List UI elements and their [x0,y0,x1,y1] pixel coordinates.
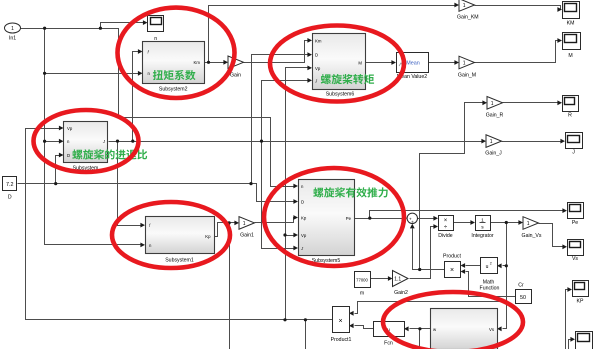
svg-text:Subsystem2: Subsystem2 [159,86,188,92]
gain Gain_KM [459,0,475,11]
scope R [563,96,579,112]
annotation red ellipse around Subsystem6 [270,26,404,102]
wire Sum to Divide [418,218,436,220]
svg-text:Kp: Kp [205,234,211,239]
subsystem Subsystem (advance ratio) [64,122,108,163]
wire R branch to Gain_R [420,103,485,270]
wire Gain2 to Divide divisor [410,227,436,279]
svg-text:KM: KM [567,21,575,27]
wire J branch to Subsystem1 f [118,142,143,226]
block Divide [439,216,454,231]
svg-text:D: D [8,195,12,201]
scope Vs [568,240,584,256]
wire Gain_R to Scope R [503,102,560,104]
constant m = 77000 [355,272,371,288]
annotation red ellipse around wake subsystem [383,292,523,349]
junction dots [43,27,46,30]
svg-text:Pe: Pe [572,220,578,226]
constant D = 7.2 [3,177,17,191]
annotation red ellipse around Subsystem1 [112,202,230,268]
svg-text:Subsystem6: Subsystem6 [326,92,355,98]
svg-text:KP: KP [577,299,584,305]
scope J [566,133,583,149]
gain Gain_R [487,97,503,110]
wire J branch to Subsystem2 f [133,52,140,142]
svg-text:M: M [568,53,572,59]
svg-text:Vp: Vp [301,233,307,238]
svg-text:M: M [358,60,362,65]
svg-text:Kp: Kp [301,216,307,221]
svg-text:D: D [67,153,70,158]
svg-text:Mean: Mean [406,61,420,67]
wire J line to Gain_J [109,141,484,143]
wire D line to Subsystem5 D [18,184,296,202]
gain Gain_Vs [523,217,539,230]
scope KM [563,2,580,19]
scope KP [573,281,589,297]
wire Gain_J to Scope J [502,141,563,143]
wire Mean Value2 to Gain_M [429,62,457,64]
svg-text:D: D [301,200,304,205]
svg-text:1: 1 [11,26,14,32]
svg-text:1: 1 [527,221,530,227]
wire Vp riser to Subsystem6 Vp [286,68,310,320]
svg-text:Product1: Product1 [331,337,352,343]
wire Km to Gain [205,62,226,64]
wire Subsystem1 Kp to Gain1 [215,223,237,237]
wire Gain_Vs to Scope Vs [539,224,565,247]
wire Kp branch down [229,223,231,349]
svg-text:Divide: Divide [438,233,453,239]
svg-text:Gain_J: Gain_J [485,151,502,157]
svg-text:Vp: Vp [67,126,73,131]
scope bottom right [576,332,593,349]
svg-text:Function: Function [480,286,500,292]
wire Gain_M to Scope M [475,41,560,63]
wire Product R to Sum minus [413,229,445,270]
wire mass to Gain2 [371,278,390,280]
gain Gain [228,56,244,69]
block Product1 [333,307,350,333]
svg-text:u: u [486,264,489,270]
svg-text:Cr: Cr [518,283,524,289]
svg-text:1: 1 [491,101,494,107]
wire w branch down [419,329,421,349]
svg-text:m: m [360,291,364,297]
wire n to Subsystem2 n [45,73,140,75]
wire n branch to Scope n [101,23,145,29]
svg-text:+: + [411,219,414,224]
svg-text:77000: 77000 [356,278,368,283]
wire J branch to Subsystem5 J [262,142,296,249]
subsystem Subsystem1 [146,217,215,254]
wire Pe to Sum [355,218,405,220]
svg-text:×: × [450,267,454,274]
svg-text:Product: Product [443,254,461,260]
wire Vp to Subsystem5 Vp [286,235,296,237]
svg-text:1.1: 1.1 [394,277,401,283]
subsystem wake (bottom) [431,309,498,349]
svg-text:Gain_KM: Gain_KM [457,15,479,21]
wire Vs branch to Math Function [503,265,507,267]
svg-text:Integrator: Integrator [471,233,493,239]
annotation red ellipse around Subsystem advance ratio [34,110,139,172]
input port In1 [5,23,21,33]
svg-text:1: 1 [243,221,246,227]
wire Gain1 to Subsystem5 Kp [255,218,296,223]
svg-text:1: 1 [463,3,466,9]
wire riser to bottom scope [569,340,573,349]
subsystem Subsystem2 (torque coefficient) [143,42,205,84]
annotation red ellipse around Subsystem2 [118,8,235,98]
annotation red ellipse around Subsystem5 [264,168,404,266]
wire n to Subsystem advance-ratio n [45,141,61,143]
wire n branch down left column [45,29,143,245]
svg-text:Gain1: Gain1 [240,233,254,239]
svg-text:7.2: 7.2 [6,182,14,188]
wire riser to Scope KP [566,290,570,349]
svg-text:Vp: Vp [315,66,321,71]
svg-text:R: R [568,113,572,119]
subsystem Subsystem6 (propeller torque) [313,34,366,90]
wire Gain_KM to Scope KM [475,6,561,10]
svg-text:Subsystem1: Subsystem1 [165,258,194,264]
wire D branch to Subsystem advance-ratio D [56,156,61,184]
svg-text:2: 2 [490,262,492,266]
block Math Function u^2 [481,258,498,274]
wire Cr to Product [466,272,516,297]
block Integrator [476,216,491,231]
svg-text:×: × [444,218,448,224]
sum junction [407,213,417,223]
svg-text:Gain_R: Gain_R [486,113,504,119]
svg-text:In1: In1 [9,36,16,42]
svg-text:Vs: Vs [489,327,494,332]
gain Gain1 [239,217,255,230]
svg-text:1: 1 [463,61,466,67]
scope n [148,16,164,32]
gain Gain2 [393,271,409,287]
wire n main: In1 to Subsystem5 n [21,29,296,187]
wire Vs down to bottom subsystem [503,223,507,329]
wire J branch to Subsystem6 J [262,81,310,142]
svg-text:Pe: Pe [346,216,352,221]
svg-text:Vs: Vs [572,256,578,262]
scope Pe [568,203,584,219]
svg-text:Km: Km [194,60,201,65]
wire D branch to Subsystem6 D [252,55,310,184]
wire Vp feedback from Product1 to Subsystem Vp [26,129,333,320]
svg-text:Gain_Vs: Gain_Vs [522,233,542,239]
svg-text:Km: Km [315,38,322,43]
wire u2 to Product [466,265,481,267]
svg-text:Gain_M: Gain_M [458,73,476,79]
block Fcn [374,322,405,337]
wire Vp stub down [305,320,307,349]
svg-text:Gain2: Gain2 [394,290,408,296]
scope M [563,33,581,50]
wire Km branch to Gain_KM [209,6,457,63]
svg-text:Fcn: Fcn [384,341,393,347]
wire Integrator to Gain_Vs [491,222,521,224]
wire Subsystem6 M to Mean Value2 [366,62,394,64]
wire Pe branch to Scope Pe [370,211,565,219]
wire w to Fcn [410,328,431,330]
svg-text:×: × [338,318,342,325]
svg-text:J: J [572,150,575,156]
block Mean Value2 [397,53,429,73]
svg-text:1: 1 [490,139,493,145]
wire Fcn to Product1 [355,326,374,329]
wire Divide to Integrator [454,222,473,224]
gain Gain_J [486,135,502,148]
svg-text:D: D [315,53,318,58]
wire Gain to Subsystem6 Km [244,41,310,63]
subsystem Subsystem5 (effective thrust) [299,180,355,256]
svg-text:50: 50 [520,295,526,301]
gain Gain_M [459,56,475,69]
svg-text:Gain: Gain [230,73,241,79]
wire Vs branch to Product1 [355,302,507,314]
